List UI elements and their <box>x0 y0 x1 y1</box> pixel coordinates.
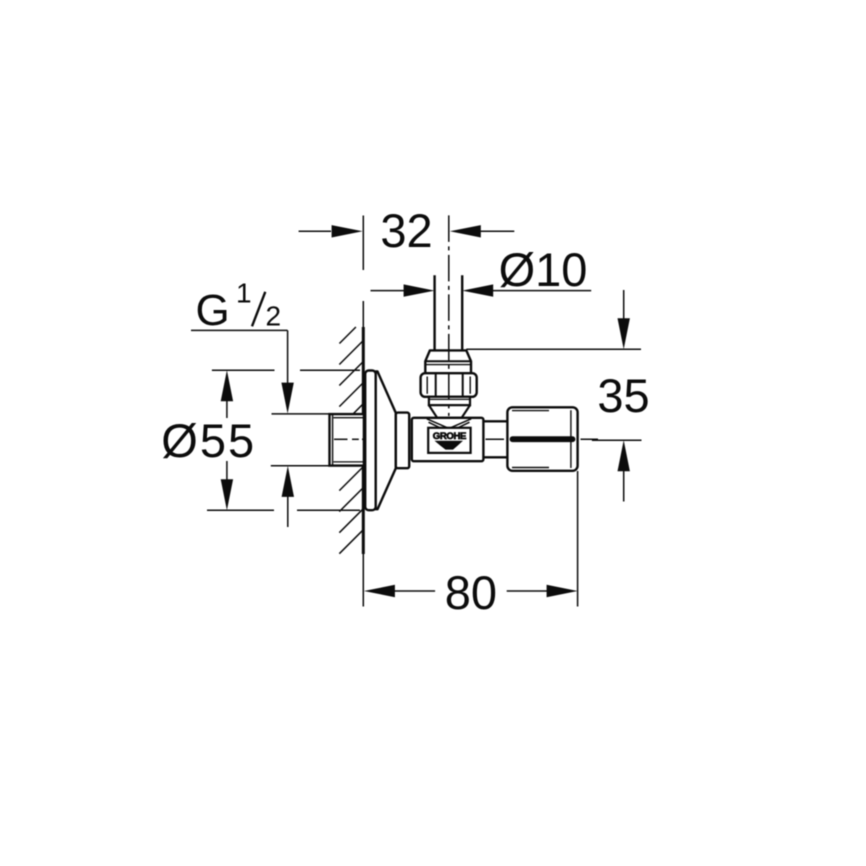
vertical centerline <box>448 215 450 416</box>
wall hatching <box>339 327 363 554</box>
escutcheon cone <box>376 372 396 510</box>
washer ring below nut <box>429 397 470 405</box>
wall line <box>362 327 365 554</box>
GROHE laurel mark <box>435 441 464 450</box>
dimension 80 <box>577 471 579 607</box>
wall extension line below (for 80 dim) <box>362 554 364 607</box>
svg-text:80: 80 <box>445 566 497 619</box>
escutcheon plate <box>365 371 376 511</box>
dimension diameter 10 <box>371 284 592 296</box>
svg-text:G: G <box>196 286 230 335</box>
neck between body and handle <box>483 420 507 422</box>
body inlet funnel V <box>427 419 471 428</box>
supply pipe <box>433 275 435 351</box>
G 1/2 leader line <box>191 329 288 331</box>
svg-text:32: 32 <box>380 204 432 257</box>
valve body <box>412 418 484 461</box>
compression hex nut <box>421 373 477 397</box>
compression cap <box>425 350 471 373</box>
svg-text:Ø55: Ø55 <box>161 414 256 467</box>
svg-text:35: 35 <box>597 369 649 422</box>
wall nipple G1/2 thread <box>330 414 364 466</box>
dimension 35 <box>623 290 625 319</box>
svg-text:2: 2 <box>266 300 282 331</box>
horizontal centerline segments <box>334 438 598 440</box>
diameter 55 dimension arrows <box>221 370 233 401</box>
wall extension line above (for 32 dim) <box>362 216 364 271</box>
wall nipple thin extension lines <box>272 413 330 415</box>
svg-text:Ø10: Ø10 <box>499 243 588 296</box>
svg-text:1: 1 <box>236 278 252 309</box>
35 dim top reference line <box>466 348 641 350</box>
handle <box>507 407 577 471</box>
G 1/2 lower arrow <box>282 466 294 497</box>
diameter 55 extension lines <box>207 370 360 510</box>
handle grip band <box>513 436 573 442</box>
GROHE logo box <box>428 428 470 453</box>
escutcheon shank cylinder <box>396 413 409 469</box>
dimension 32 <box>299 225 515 237</box>
svg-text:GROHE: GROHE <box>433 431 467 442</box>
inlet cone to body <box>429 405 470 418</box>
